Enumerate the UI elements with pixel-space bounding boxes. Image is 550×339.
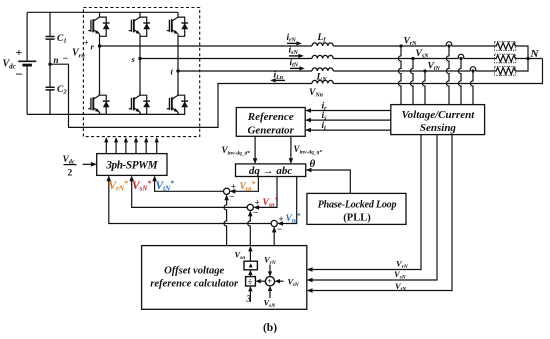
svg-text:reference calculator: reference calculator — [150, 279, 239, 290]
inductor (phase t) — [312, 68, 333, 71]
svg-text:3: 3 — [246, 294, 252, 304]
transistor Q5 (leg s bottom IGBT) — [129, 90, 150, 114]
svg-text:+: + — [231, 182, 236, 192]
offset calc internal: adder circle — [265, 277, 274, 286]
wire: leg s midsection — [139, 36, 141, 95]
svg-text:Offset voltage: Offset voltage — [164, 266, 224, 277]
wire: dq output d to summer 1 — [231, 177, 259, 192]
svg-text:3ph-SPWM: 3ph-SPWM — [105, 160, 158, 172]
svg-text:+: + — [279, 214, 284, 224]
svg-text:Reference: Reference — [247, 111, 294, 123]
svg-text:dq → abc: dq → abc — [249, 165, 293, 177]
svg-text:VsN: VsN — [394, 269, 407, 281]
wire: phase r line left — [100, 45, 313, 47]
current sensor phase t — [470, 67, 475, 71]
Phase-Locked Loop box — [307, 193, 406, 224]
wire: phase s line left — [140, 58, 312, 60]
offset calc internal: Vsn output arrow — [249, 247, 251, 261]
transistor Q4 (leg r bottom IGBT) — [88, 90, 109, 114]
wire: i_s to reference generator — [306, 119, 391, 121]
svg-text:−: − — [229, 192, 234, 202]
colored reference labels — [109, 179, 301, 225]
wire: phase r line right — [333, 45, 446, 47]
svg-text:t: t — [171, 67, 174, 77]
svg-text:Sensing: Sensing — [420, 122, 457, 134]
resistor load r — [495, 42, 516, 51]
wire: leg r bottom stub — [99, 112, 101, 115]
wire: i_r to reference generator — [306, 110, 391, 112]
wire: offset feed to summer1 with hops — [224, 195, 227, 245]
offset calc internal: VsN up arrow — [269, 287, 271, 298]
svg-text:−: − — [277, 224, 282, 234]
svg-text:LN: LN — [316, 73, 328, 84]
wire: offset feed to summer3 — [273, 228, 275, 246]
svg-text:itN: itN — [290, 58, 299, 69]
current direction arrows — [270, 41, 305, 82]
svg-text:s: s — [131, 54, 136, 64]
svg-text:Vtn*: Vtn* — [286, 212, 301, 225]
svg-text:Vinv-dq_q*: Vinv-dq_q* — [294, 144, 323, 156]
wire: dq output 3 to summer 3 — [278, 177, 297, 224]
gate signal arrows — [106, 139, 156, 154]
svg-text:VtN: VtN — [288, 277, 300, 289]
offset calc internal: VtN left arrow — [276, 280, 284, 282]
wire: phase t line left — [178, 70, 312, 72]
Offset voltage reference calculator box — [142, 246, 307, 310]
wire: neutral line right — [333, 59, 542, 84]
offset calc internal: input 3 arrow — [249, 287, 251, 302]
wire: Vinv-dq_q* to dq-abc — [290, 136, 292, 163]
node r — [98, 44, 101, 47]
inverter dashed enclosure — [83, 8, 199, 137]
offset calc internal: limiter box — [244, 261, 257, 270]
box texts — [105, 109, 475, 334]
wire: leg r midsection — [99, 36, 101, 95]
wire: leg s bottom stub — [139, 112, 141, 115]
svg-text:−: − — [253, 208, 258, 218]
svg-text:+: + — [267, 277, 272, 286]
wire: phase t line right — [333, 70, 470, 72]
offset calc internal: limiter-divider link — [249, 271, 251, 277]
svg-text:+: + — [255, 198, 260, 208]
svg-text:VNn: VNn — [309, 88, 324, 99]
wire: load star connections — [516, 46, 543, 71]
svg-text:+: + — [16, 45, 23, 59]
svg-text:Voltage/Current: Voltage/Current — [402, 109, 476, 121]
svg-text:Lf: Lf — [317, 33, 327, 44]
node n — [48, 62, 51, 65]
node s — [138, 57, 141, 60]
Reference Generator box — [236, 108, 305, 137]
svg-text:÷: ÷ — [248, 277, 253, 287]
wire: Vinv-dq_d* to dq-abc — [254, 136, 256, 163]
svg-text:Vdc: Vdc — [63, 155, 75, 166]
svg-text:VtN: VtN — [395, 281, 407, 293]
summer 2 — [247, 204, 253, 210]
current sensor phase s — [458, 54, 463, 58]
arrow i_rN direction — [287, 42, 299, 44]
capacitor C2 — [46, 87, 55, 90]
capacitor C1 — [46, 37, 55, 40]
inductor (phase s) — [312, 55, 333, 58]
svg-text:it: it — [322, 121, 327, 132]
svg-text:VsN: VsN — [416, 49, 430, 60]
voltage tap s — [411, 57, 414, 60]
svg-text:Phase-Locked Loop: Phase-Locked Loop — [318, 200, 397, 211]
i_r i_s i_t labels — [63, 102, 328, 179]
arrow i_tN direction — [290, 67, 302, 69]
svg-text:VrN*: VrN* — [109, 179, 128, 193]
resistor load t — [495, 67, 516, 76]
node N — [526, 57, 529, 60]
arrow i_sN direction — [289, 55, 301, 57]
wire: i_t to reference generator — [306, 129, 391, 131]
wire: theta from PLL — [307, 170, 351, 193]
wire: summer1 output to SPWM stub 3 — [155, 178, 224, 192]
inductor LN (neutral) — [312, 80, 333, 83]
current tap t drop — [470, 71, 473, 105]
wire: neutral n underpass — [50, 64, 312, 127]
node t — [176, 69, 179, 72]
svg-text:θ: θ — [310, 158, 316, 170]
svg-text:VsN: VsN — [264, 298, 277, 310]
battery Vdc plate long — [18, 60, 36, 62]
svg-text:isN: isN — [289, 46, 299, 57]
summer 3 — [271, 220, 277, 226]
wire: Vdc/2 input arrow — [83, 163, 96, 165]
current tap s drop — [458, 59, 461, 105]
svg-text:+: + — [84, 39, 89, 48]
svg-text:n: n — [54, 55, 59, 65]
svg-text:N: N — [530, 48, 540, 60]
svg-text:r: r — [91, 42, 95, 52]
svg-text:C2: C2 — [57, 85, 67, 96]
svg-text:Generator: Generator — [247, 125, 294, 137]
voltage tap r — [399, 44, 402, 47]
voltage tap t — [423, 69, 426, 72]
wire: capacitor branch upper — [49, 12, 51, 36]
wire: phase s line right — [333, 58, 458, 60]
wire: sensing drop 2 — [308, 135, 437, 280]
transistor Q6 (leg t bottom IGBT) — [167, 90, 188, 114]
svg-text:VsN*: VsN* — [132, 179, 151, 193]
svg-text:VtN*: VtN* — [156, 179, 175, 193]
svg-text:VrN: VrN — [264, 255, 277, 267]
wire: leg t midsection — [177, 36, 179, 95]
wire: sensing drop 1 — [308, 135, 421, 270]
wire: offset feed to summer2 with hop — [248, 212, 251, 246]
svg-text:Vrn*: Vrn* — [240, 180, 256, 193]
svg-text:Vsn: Vsn — [235, 250, 246, 262]
transistor Q2 (leg s top IGBT) — [129, 12, 150, 36]
battery Vdc plate short — [22, 64, 32, 67]
svg-text:(b): (b) — [263, 322, 277, 334]
svg-text:irN: irN — [287, 33, 297, 44]
svg-text:Vsn*: Vsn* — [263, 196, 279, 209]
svg-text:VtN: VtN — [428, 62, 441, 73]
Voltage/Current Sensing box — [391, 105, 485, 135]
text labels — [3, 33, 540, 99]
transistor Q1 (leg r top IGBT) — [88, 12, 109, 36]
transistor Q3 (leg t top IGBT) — [167, 12, 188, 36]
fraction bar Vdc/2 — [64, 164, 77, 166]
wire: summer3 output to SPWM stub 1 — [109, 178, 271, 224]
wire: DC bottom rail — [27, 113, 178, 115]
arrow i_LN direction — [273, 79, 285, 81]
offset calc internal: VrN down arrow — [269, 265, 271, 276]
svg-text:−: − — [16, 67, 23, 82]
wire: dq output 2 to summer 2 — [254, 177, 277, 208]
wire: summer2 output to SPWM stub 2 — [132, 178, 248, 208]
wire: battery left leg lower — [26, 65, 28, 114]
inductor Lf (phase r) — [312, 43, 333, 46]
summer 1 — [224, 188, 230, 194]
wire: battery left leg upper — [26, 12, 28, 61]
wire: DC top rail — [27, 11, 178, 13]
offset calc internal: divider box — [246, 277, 256, 286]
wire: leg t bottom stub — [177, 112, 179, 115]
resistor load s — [495, 54, 516, 63]
wire: sensing drop 3 — [308, 135, 452, 291]
svg-text:C1: C1 — [57, 34, 67, 45]
svg-text:2: 2 — [68, 169, 73, 179]
dq to abc box — [236, 164, 306, 177]
svg-text:(PLL): (PLL) — [343, 213, 371, 224]
wire: capacitor branch lower — [49, 90, 51, 114]
wire: capacitor branch middle — [49, 40, 51, 87]
svg-text:is: is — [322, 111, 328, 122]
current tap r drop — [446, 46, 449, 105]
svg-text:−: − — [63, 54, 69, 65]
offset calculator internal labels — [235, 250, 409, 310]
summing junction signs — [229, 182, 283, 234]
svg-text:VrN: VrN — [404, 37, 418, 48]
svg-text:Vinv-dq_d*: Vinv-dq_d* — [222, 145, 251, 157]
current sensor phase r — [446, 42, 451, 46]
svg-text:Vdc: Vdc — [3, 59, 16, 71]
3ph-SPWM box — [97, 154, 167, 176]
offset calc internal: adder to divider — [257, 280, 266, 282]
